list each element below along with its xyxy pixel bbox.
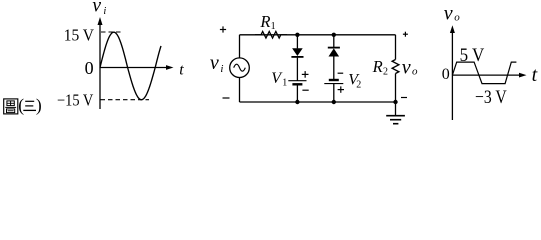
svg-text:15 V: 15 V [64, 26, 94, 45]
svg-text:): ) [36, 95, 42, 115]
svg-text:o: o [412, 66, 418, 78]
svg-text:2: 2 [356, 80, 361, 91]
svg-text:R: R [259, 12, 270, 31]
svg-text:R: R [372, 57, 383, 76]
svg-text:0: 0 [442, 66, 450, 83]
svg-text:2: 2 [383, 67, 388, 78]
svg-text:t: t [532, 64, 538, 86]
svg-text:v: v [444, 3, 453, 25]
svg-text:o: o [454, 11, 460, 23]
svg-text:t: t [179, 62, 184, 79]
svg-text:1: 1 [271, 21, 276, 32]
svg-text:v: v [92, 0, 101, 17]
svg-text:i: i [103, 6, 106, 17]
svg-text:0: 0 [85, 58, 94, 78]
svg-text:i: i [220, 63, 223, 75]
svg-text:1: 1 [282, 78, 287, 89]
svg-text:v: v [210, 52, 219, 74]
svg-text:5 V: 5 V [460, 45, 485, 66]
svg-text:(: ( [18, 95, 24, 115]
svg-text:−3 V: −3 V [475, 87, 507, 108]
svg-text:−15 V: −15 V [57, 90, 93, 109]
svg-text:v: v [402, 56, 411, 78]
